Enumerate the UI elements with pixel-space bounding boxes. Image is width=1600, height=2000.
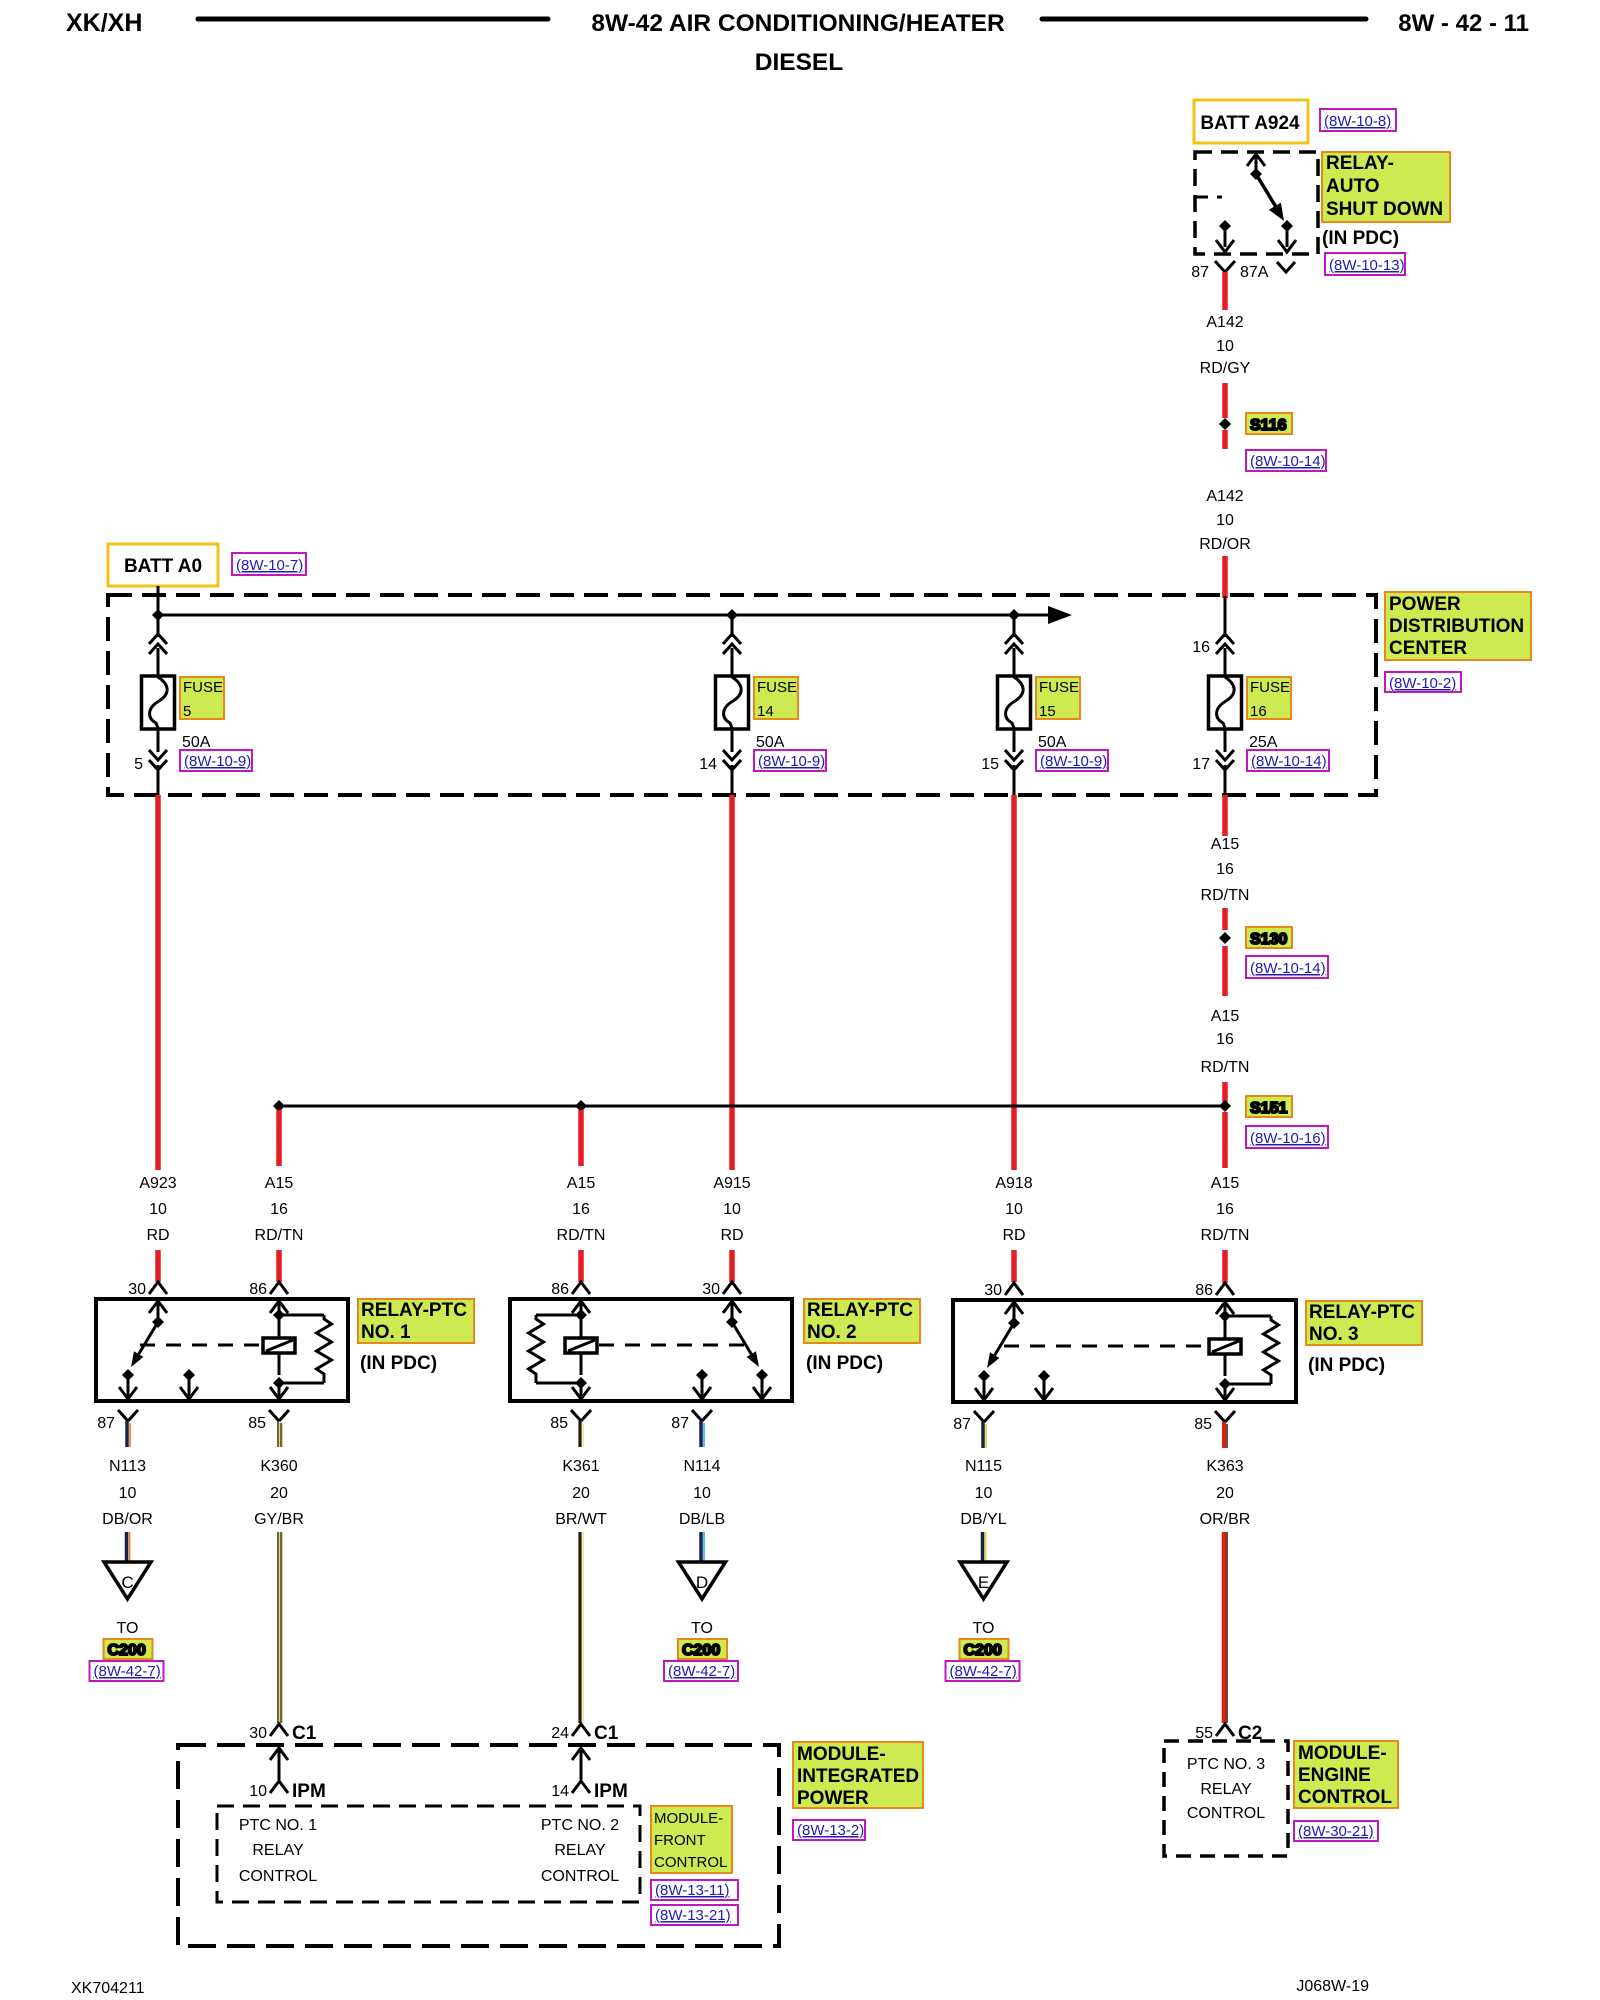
svg-text:5: 5 — [134, 756, 143, 773]
wire A923 RD to relay — [155, 1250, 161, 1282]
relay 2 switch arm — [732, 1322, 751, 1354]
relay 3 spare terminal arrow — [1038, 1370, 1050, 1382]
wire A15 RD/TN to S151 — [1222, 1082, 1228, 1102]
relay 3 contact terminal arrow — [978, 1370, 990, 1382]
battery feed label BATT A0 — [108, 544, 218, 586]
wire fuse 5 feed from bus — [157, 615, 160, 637]
svg-text:MODULE-: MODULE- — [654, 1810, 723, 1827]
fuse F15 input chevrons — [1005, 634, 1023, 654]
wire A918 RD from PDC — [1011, 795, 1017, 1170]
svg-text:NO. 2: NO. 2 — [807, 1322, 857, 1343]
svg-text:(8W-10-9): (8W-10-9) — [1040, 753, 1107, 770]
svg-text:A15: A15 — [1211, 836, 1240, 853]
svg-text:A142: A142 — [1206, 314, 1243, 331]
svg-text:(8W-10-8): (8W-10-8) — [1324, 113, 1391, 130]
svg-text:RD: RD — [146, 1227, 169, 1244]
relay PTC NO. 3 box — [953, 1300, 1296, 1402]
green label FUSE 16 — [1247, 677, 1291, 720]
relay ASD contact 87A stem arrow — [1278, 220, 1296, 252]
svg-text:30: 30 — [128, 1281, 146, 1298]
wire out of fuse 16 — [1224, 729, 1227, 752]
svg-text:XK704211: XK704211 — [71, 1980, 145, 1997]
svg-text:A142: A142 — [1206, 488, 1243, 505]
relay 1 spare terminal arrow — [183, 1369, 195, 1381]
svg-text:16: 16 — [1192, 639, 1210, 656]
svg-text:N113: N113 — [109, 1458, 146, 1475]
svg-text:RD/TN: RD/TN — [1201, 1059, 1250, 1076]
junction node at fuse 15 — [1008, 609, 1020, 621]
wire fuse 5 to PDC edge — [157, 765, 160, 795]
green label FUSE 14 — [754, 677, 798, 720]
wire K363 OR/BR to ECM C2 — [1224, 1532, 1227, 1723]
svg-text:A918: A918 — [995, 1175, 1032, 1192]
svg-text:16: 16 — [1216, 1031, 1234, 1048]
wire fuse 16 to PDC edge — [1224, 765, 1227, 795]
wire A15 RD/TN below S130 — [1222, 946, 1228, 996]
svg-text:CENTER: CENTER — [1389, 638, 1467, 659]
connector Y pin 85 — [1215, 1411, 1235, 1422]
relay 3 common terminal arrow — [1005, 1302, 1023, 1314]
svg-text:C: C — [121, 1573, 133, 1592]
svg-text:10: 10 — [693, 1485, 711, 1502]
svg-text:CONTROL: CONTROL — [239, 1868, 317, 1885]
svg-text:50A: 50A — [182, 734, 211, 751]
svg-text:A915: A915 — [713, 1175, 750, 1192]
svg-text:87: 87 — [671, 1415, 689, 1432]
svg-text:K361: K361 — [562, 1458, 599, 1475]
relay 3 coil terminal arrow — [1216, 1302, 1234, 1314]
wire stem pin 87 — [983, 1422, 986, 1448]
svg-text:8W-42 AIR CONDITIONING/HEATER: 8W-42 AIR CONDITIONING/HEATER — [591, 10, 1005, 37]
svg-text:5: 5 — [183, 703, 191, 720]
svg-text:10: 10 — [1005, 1201, 1023, 1218]
connector Y pin 85 — [571, 1410, 591, 1421]
svg-text:16: 16 — [1216, 861, 1234, 878]
wire into fuse 5 — [157, 648, 160, 676]
svg-text:FUSE: FUSE — [757, 679, 797, 696]
fuse 15 body — [998, 676, 1031, 729]
bus arrowhead — [1048, 606, 1072, 624]
wire N113 DB/OR to connector C — [127, 1532, 130, 1563]
svg-text:(8W-10-13): (8W-10-13) — [1329, 257, 1405, 274]
svg-text:C200: C200 — [108, 1642, 146, 1659]
svg-text:SHUT DOWN: SHUT DOWN — [1326, 199, 1443, 220]
svg-text:(8W-13-21): (8W-13-21) — [655, 1907, 731, 1924]
wire A15 RD/TN from fuse 16 — [1222, 795, 1228, 836]
module integrated power dashed box — [178, 1745, 779, 1946]
module entry arrow pin 10 — [270, 1748, 288, 1780]
connector caret C1 — [572, 1724, 590, 1736]
svg-text:AUTO: AUTO — [1326, 176, 1379, 197]
svg-text:DISTRIBUTION: DISTRIBUTION — [1389, 616, 1524, 637]
wire into fuse 14 — [731, 648, 734, 676]
wire A15 RD/TN branch from S151 — [276, 1110, 282, 1166]
svg-text:24: 24 — [551, 1725, 569, 1742]
wire label A918 10 RD — [995, 1175, 1032, 1244]
connector open 87A — [1277, 262, 1295, 272]
relay 2 spare terminal arrow — [696, 1369, 708, 1381]
wire A15 RD/TN branch from S151 — [578, 1110, 584, 1166]
wire stem pin 87 — [127, 1421, 130, 1447]
svg-text:(8W-10-14): (8W-10-14) — [1250, 960, 1326, 977]
svg-text:(8W-30-21): (8W-30-21) — [1298, 1823, 1374, 1840]
wire BATT A0 to bus — [157, 586, 160, 615]
label PTC NO. 1 RELAY CONTROL — [239, 1817, 317, 1885]
svg-text:85: 85 — [1194, 1416, 1212, 1433]
connector triangle E — [960, 1562, 1007, 1599]
wire A142 inside PDC to fuse 16 — [1224, 596, 1227, 637]
svg-text:INTEGRATED: INTEGRATED — [797, 1766, 919, 1787]
relay 2 resistor — [529, 1315, 544, 1383]
svg-text:BATT A924: BATT A924 — [1200, 113, 1300, 134]
svg-text:10: 10 — [975, 1485, 993, 1502]
relay 2 common terminal arrow — [723, 1301, 741, 1313]
green label FUSE 15 — [1036, 677, 1080, 720]
svg-text:C1: C1 — [594, 1723, 619, 1744]
relay 3 actuation dashed line — [1004, 1345, 1207, 1348]
svg-text:TO: TO — [973, 1620, 995, 1637]
link 8W-10-14 (S116) — [1246, 450, 1326, 471]
svg-text:RD: RD — [1002, 1227, 1025, 1244]
svg-text:S151: S151 — [1250, 1100, 1287, 1117]
svg-text:17: 17 — [1192, 756, 1210, 773]
svg-text:RD/TN: RD/TN — [1201, 887, 1250, 904]
svg-text:14: 14 — [551, 1783, 569, 1800]
wire K360 GY/BR to IPM C1 — [278, 1532, 281, 1723]
wire label A15 16 RD/TN upper — [1201, 836, 1250, 904]
svg-text:(IN PDC): (IN PDC) — [806, 1353, 883, 1374]
wire A923 RD from PDC — [155, 795, 161, 1170]
svg-text:(8W-13-11): (8W-13-11) — [655, 1882, 729, 1899]
wire label N115 10 DB/YL — [960, 1458, 1006, 1528]
link (8W-10-9) — [1036, 750, 1108, 771]
green label RELAY-PTC NO. 3 — [1306, 1301, 1422, 1345]
svg-text:10: 10 — [1216, 512, 1234, 529]
svg-text:30: 30 — [249, 1725, 267, 1742]
svg-text:(8W-10-14): (8W-10-14) — [1251, 753, 1327, 770]
svg-text:DIESEL: DIESEL — [755, 49, 844, 76]
fuse F16 input chevrons — [1216, 634, 1234, 654]
svg-text:RELAY-PTC: RELAY-PTC — [1309, 1302, 1415, 1323]
bus wire from BATT A0 — [158, 614, 1052, 617]
splice bus S151 — [279, 1105, 1225, 1108]
wire fuse 15 to PDC edge — [1013, 765, 1016, 795]
svg-text:10: 10 — [1216, 338, 1234, 355]
relay K1 auto shut down dashed box — [1195, 152, 1318, 254]
green label RELAY-AUTO SHUT DOWN — [1322, 152, 1450, 222]
link 8W-13-11 — [651, 1880, 738, 1900]
svg-text:86: 86 — [1195, 1282, 1213, 1299]
wire A142 RD/OR segment 4 into PDC — [1222, 556, 1228, 598]
wire N114 DB/LB to connector D — [701, 1532, 704, 1563]
connector caret IPM — [572, 1781, 590, 1793]
wire A15 RD/TN to S130 — [1222, 908, 1228, 930]
svg-text:RD/OR: RD/OR — [1199, 536, 1251, 553]
header rule left — [198, 17, 548, 22]
fuse 14 body — [716, 676, 749, 729]
svg-text:RD/TN: RD/TN — [1201, 1227, 1250, 1244]
svg-text:J068W-19: J068W-19 — [1296, 1978, 1369, 1995]
relay 1 coil terminal arrow — [270, 1301, 288, 1313]
junction node S151 branch middle — [575, 1100, 587, 1112]
relay 2 coil — [565, 1338, 597, 1353]
green label MODULE-INTEGRATED POWER — [793, 1742, 923, 1809]
svg-text:(8W-10-9): (8W-10-9) — [184, 753, 251, 770]
connector caret C2 — [1216, 1724, 1234, 1736]
svg-text:RD: RD — [720, 1227, 743, 1244]
svg-text:OR/BR: OR/BR — [1200, 1511, 1251, 1528]
svg-text:86: 86 — [551, 1281, 569, 1298]
wire A142 RD/GY segment 2 — [1222, 383, 1228, 418]
svg-text:85: 85 — [248, 1415, 266, 1432]
relay 2 coil exit arrow — [580, 1353, 583, 1375]
relay 1 contact terminal arrow — [122, 1369, 134, 1381]
junction node S151 branch left — [273, 1100, 285, 1112]
power distribution center dashed box — [108, 595, 1376, 795]
svg-text:15: 15 — [981, 756, 999, 773]
svg-text:14: 14 — [757, 703, 774, 720]
module entry arrow pin 14 — [572, 1748, 590, 1780]
svg-text:RELAY-PTC: RELAY-PTC — [807, 1300, 913, 1321]
green label FUSE 5 — [180, 677, 224, 720]
svg-text:10: 10 — [149, 1201, 167, 1218]
svg-text:POWER: POWER — [797, 1788, 869, 1809]
svg-text:20: 20 — [572, 1485, 590, 1502]
svg-text:IPM: IPM — [292, 1781, 326, 1802]
wire label A923 10 RD — [139, 1175, 176, 1244]
svg-text:TO: TO — [691, 1620, 713, 1637]
svg-text:CONTROL: CONTROL — [541, 1868, 619, 1885]
svg-text:RD/TN: RD/TN — [557, 1227, 606, 1244]
relay PTC NO. 2 box — [510, 1299, 792, 1401]
svg-text:C200: C200 — [682, 1642, 720, 1659]
wire A142 RD/OR segment 3 — [1222, 430, 1228, 449]
fuse F15 output chevrons — [1005, 750, 1023, 770]
connector caret pin 30 — [149, 1282, 167, 1294]
wire out of fuse 14 — [731, 729, 734, 752]
connector caret pin 86 — [572, 1282, 590, 1294]
svg-text:CONTROL: CONTROL — [1298, 1787, 1392, 1808]
splice S151 node — [1219, 1096, 1292, 1117]
svg-text:(8W-42-7): (8W-42-7) — [950, 1663, 1017, 1680]
svg-text:IPM: IPM — [594, 1781, 628, 1802]
svg-text:86: 86 — [249, 1281, 267, 1298]
svg-text:(8W-13-2): (8W-13-2) — [797, 1822, 864, 1839]
relay 2 contact terminal arrow — [756, 1369, 768, 1381]
relay 2 actuation dashed line — [599, 1344, 746, 1347]
connector label C200 right — [960, 1639, 1009, 1659]
svg-text:CONTROL: CONTROL — [1187, 1805, 1265, 1822]
svg-text:FRONT: FRONT — [654, 1832, 706, 1849]
svg-text:N114: N114 — [683, 1458, 720, 1475]
wire A918 RD to relay — [1011, 1250, 1017, 1282]
fuse F16 output chevrons — [1216, 750, 1234, 770]
link 8W-10-7 — [232, 553, 306, 575]
svg-text:D: D — [696, 1573, 708, 1592]
wire A15 RD/TN to relay 3 pin 86 — [1222, 1250, 1228, 1283]
junction node at fuse 5 — [152, 609, 164, 621]
relay 1 resistor — [317, 1315, 332, 1383]
svg-text:RELAY-PTC: RELAY-PTC — [361, 1300, 467, 1321]
wire stem pin 85 — [580, 1421, 583, 1447]
green label MODULE-ENGINE CONTROL — [1294, 1741, 1398, 1808]
link 8W-13-2 — [793, 1820, 865, 1840]
svg-text:(8W-42-7): (8W-42-7) — [94, 1663, 161, 1680]
svg-text:20: 20 — [1216, 1485, 1234, 1502]
green label MODULE-FRONT CONTROL — [651, 1806, 732, 1873]
link 8W-30-21 — [1294, 1821, 1378, 1841]
relay 1 coil exit arrow — [278, 1353, 281, 1375]
relay 3 coil — [1209, 1339, 1241, 1354]
svg-text:K360: K360 — [260, 1458, 297, 1475]
connector triangle C — [104, 1562, 151, 1599]
svg-text:(8W-10-14): (8W-10-14) — [1250, 453, 1326, 470]
svg-text:(8W-10-9): (8W-10-9) — [758, 753, 825, 770]
svg-text:A15: A15 — [567, 1175, 596, 1192]
svg-text:8W - 42 - 11: 8W - 42 - 11 — [1398, 10, 1529, 37]
svg-text:S116: S116 — [1250, 417, 1287, 434]
connector Y pin 85 — [269, 1410, 289, 1421]
connector Y pin 87 — [974, 1411, 994, 1422]
wire A915 RD from PDC — [729, 795, 735, 1170]
wire into fuse 15 — [1013, 648, 1016, 676]
link (8W-10-9) — [180, 750, 252, 771]
connector Y pin 87 — [692, 1410, 712, 1421]
svg-text:20: 20 — [270, 1485, 288, 1502]
label PTC NO. 2 RELAY CONTROL — [541, 1817, 619, 1885]
link 8W-10-8 — [1320, 109, 1396, 131]
relay 3 resistor — [1264, 1316, 1279, 1384]
svg-text:MODULE-: MODULE- — [797, 1744, 886, 1765]
wire A142 RD/GY segment 1 — [1222, 272, 1228, 310]
link 8W-10-13 — [1325, 253, 1405, 275]
wire K361 BR/WT to IPM C1 — [580, 1532, 583, 1723]
header rule right — [1042, 17, 1366, 22]
svg-text:FUSE: FUSE — [1039, 679, 1079, 696]
svg-text:87: 87 — [1191, 264, 1209, 281]
svg-text:CONTROL: CONTROL — [654, 1854, 727, 1871]
fuse 5 body — [142, 676, 175, 729]
wire fuse 14 feed from bus — [731, 615, 734, 637]
svg-text:TO: TO — [117, 1620, 139, 1637]
connector caret C1 — [270, 1724, 288, 1736]
green label RELAY-PTC NO. 1 — [358, 1299, 474, 1343]
svg-text:MODULE-: MODULE- — [1298, 1743, 1387, 1764]
wire label K363 20 OR/BR — [1200, 1458, 1251, 1528]
wire label A15 16 RD/TN middle — [1201, 1008, 1250, 1076]
wire label A142 10 RD/OR — [1199, 488, 1251, 553]
svg-text:16: 16 — [1216, 1201, 1234, 1218]
wire label N114 10 DB/LB — [679, 1458, 725, 1528]
svg-text:RELAY-: RELAY- — [1326, 153, 1394, 174]
wire stem pin 85 — [1224, 1422, 1227, 1448]
link 8W-10-14 (S130) — [1246, 956, 1328, 978]
svg-text:FUSE: FUSE — [1250, 679, 1290, 696]
link 8W-42-7 middle — [664, 1661, 738, 1681]
svg-text:16: 16 — [572, 1201, 590, 1218]
link 8W-10-16 (S151) — [1246, 1126, 1328, 1148]
svg-text:RELAY: RELAY — [252, 1842, 304, 1859]
svg-text:NO. 3: NO. 3 — [1309, 1324, 1359, 1345]
svg-text:NO. 1: NO. 1 — [361, 1322, 411, 1343]
connector caret pin 86 — [270, 1282, 288, 1294]
connector label C200 middle — [678, 1639, 727, 1659]
link (8W-10-14) — [1247, 750, 1329, 771]
wire label K361 20 BR/WT — [555, 1458, 607, 1528]
connector caret pin 86 — [1216, 1283, 1234, 1295]
svg-text:(8W-10-7): (8W-10-7) — [236, 557, 303, 574]
wire N115 DB/YL to connector E — [983, 1532, 986, 1563]
splice S116 — [1219, 413, 1292, 434]
svg-text:16: 16 — [270, 1201, 288, 1218]
relay ASD terminal 87 stem arrow — [1216, 220, 1234, 252]
wire label A15 16 RD/TN branch — [255, 1175, 304, 1244]
battery feed label BATT A924 — [1194, 100, 1308, 143]
svg-text:A15: A15 — [265, 1175, 294, 1192]
splice S130 — [1219, 927, 1292, 948]
svg-text:(IN PDC): (IN PDC) — [1308, 1355, 1385, 1376]
svg-text:DB/LB: DB/LB — [679, 1511, 725, 1528]
svg-text:(8W-10-16): (8W-10-16) — [1250, 1130, 1326, 1147]
relay 3 coil resistor branch — [1225, 1315, 1271, 1318]
relay ASD pin 30 terminal arrow — [1247, 154, 1265, 174]
wire stem pin 87 — [701, 1421, 704, 1447]
svg-text:87: 87 — [97, 1415, 115, 1432]
relay 3 switch arm — [995, 1323, 1014, 1355]
svg-text:15: 15 — [1039, 703, 1056, 720]
svg-text:BATT A0: BATT A0 — [124, 556, 202, 577]
fuse F5 output chevrons — [149, 750, 167, 770]
svg-text:87A: 87A — [1240, 264, 1269, 281]
connector Y pin 87 — [1215, 261, 1235, 279]
svg-text:C200: C200 — [964, 1642, 1002, 1659]
svg-text:RELAY: RELAY — [1200, 1781, 1252, 1798]
wire stem pin 85 — [278, 1421, 281, 1447]
connector label C200 left — [104, 1639, 153, 1659]
link 8W-42-7 left — [90, 1661, 164, 1681]
link 8W-13-21 — [651, 1905, 738, 1925]
svg-text:RD/TN: RD/TN — [255, 1227, 304, 1244]
wire A15 RD/TN branch to relay pin 86 — [578, 1250, 584, 1282]
svg-text:E: E — [978, 1573, 989, 1592]
wire label A15 16 RD/TN branch — [557, 1175, 606, 1244]
svg-text:(8W-10-2): (8W-10-2) — [1389, 675, 1456, 692]
module engine control dashed box (PTC NO. 3 RELAY CONTROL) — [1164, 1741, 1288, 1856]
svg-text:A923: A923 — [139, 1175, 176, 1192]
svg-text:S130: S130 — [1250, 931, 1287, 948]
svg-text:(8W-42-7): (8W-42-7) — [668, 1663, 735, 1680]
svg-text:RELAY: RELAY — [554, 1842, 606, 1859]
relay 1 coil resistor branch — [279, 1314, 324, 1317]
relay 2 coil resistor branch — [536, 1314, 581, 1317]
svg-text:14: 14 — [699, 756, 717, 773]
svg-text:XK/XH: XK/XH — [66, 9, 142, 37]
wire label K360 20 GY/BR — [254, 1458, 304, 1528]
svg-text:GY/BR: GY/BR — [254, 1511, 304, 1528]
svg-text:ENGINE: ENGINE — [1298, 1765, 1371, 1786]
wire label N113 10 DB/OR — [102, 1458, 153, 1528]
relay 3 coil exit arrow — [1224, 1354, 1227, 1376]
relay 1 switch arm — [139, 1322, 158, 1354]
link 8W-42-7 right — [946, 1661, 1020, 1681]
relay ASD coil stub — [1196, 196, 1222, 199]
relay 1 common terminal arrow — [149, 1301, 167, 1313]
relay 2 coil terminal arrow — [572, 1301, 590, 1313]
wire A15 RD/TN below S151 — [1222, 1112, 1228, 1168]
svg-text:N115: N115 — [965, 1458, 1002, 1475]
svg-text:PTC NO. 3: PTC NO. 3 — [1187, 1756, 1265, 1773]
svg-text:(IN PDC): (IN PDC) — [360, 1353, 437, 1374]
